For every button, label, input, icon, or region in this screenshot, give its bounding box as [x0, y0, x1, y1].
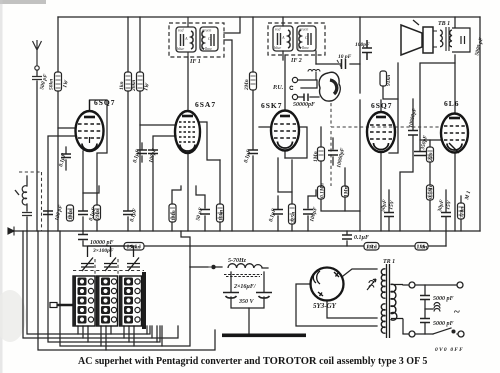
svg-text:20kn: 20kn — [131, 80, 137, 92]
svg-text:350 V: 350 V — [238, 299, 255, 305]
svg-text:A: A — [281, 35, 285, 40]
svg-text:2Mn: 2Mn — [244, 79, 250, 91]
svg-text:50000pF: 50000pF — [293, 102, 315, 108]
svg-text:6SK7: 6SK7 — [261, 101, 283, 110]
svg-text:6SQ7: 6SQ7 — [94, 98, 116, 107]
svg-text:1Mn: 1Mn — [313, 151, 319, 162]
svg-text:10000 pF: 10000 pF — [90, 240, 114, 246]
svg-text:C: C — [208, 36, 211, 41]
svg-text:5Y3-GY: 5Y3-GY — [313, 302, 337, 310]
svg-text:IF 2: IF 2 — [290, 58, 302, 64]
svg-text:100pF: 100pF — [355, 42, 370, 48]
svg-text:yellow: yellow — [297, 45, 309, 50]
svg-text:red: red — [275, 27, 281, 32]
svg-text:6SA7: 6SA7 — [195, 100, 216, 109]
svg-text:5000 pF: 5000 pF — [433, 321, 454, 327]
svg-text:A: A — [184, 36, 188, 41]
svg-text:3×100pF: 3×100pF — [92, 248, 114, 254]
svg-text:0.1µF: 0.1µF — [354, 235, 369, 241]
svg-text:6SQ7: 6SQ7 — [371, 101, 393, 110]
svg-text:150kn: 150kn — [127, 245, 141, 251]
svg-text:10kn: 10kn — [219, 210, 225, 221]
svg-text:IF 1: IF 1 — [189, 59, 201, 65]
svg-text:green: green — [299, 27, 308, 32]
svg-text:225n: 225n — [291, 212, 297, 224]
svg-text:yellow: yellow — [200, 46, 212, 51]
svg-text:6L6: 6L6 — [444, 99, 460, 108]
svg-text:green: green — [202, 28, 211, 33]
svg-text:1Mn: 1Mn — [344, 186, 350, 197]
svg-text:1kn: 1kn — [119, 81, 125, 90]
svg-text:5-70Hz: 5-70Hz — [228, 258, 247, 264]
svg-text:C: C — [305, 35, 308, 40]
svg-text:red: red — [178, 28, 184, 33]
svg-text:770n: 770n — [460, 207, 466, 218]
svg-text:TR 1: TR 1 — [383, 259, 395, 265]
svg-text:1Mn: 1Mn — [68, 209, 74, 220]
svg-text:P.U.: P.U. — [273, 85, 284, 91]
svg-text:10 pF: 10 pF — [338, 54, 352, 60]
svg-text:1Mn: 1Mn — [171, 210, 177, 221]
svg-text:1Mn: 1Mn — [366, 245, 377, 251]
svg-text:0.1Mn: 0.1Mn — [320, 183, 326, 198]
svg-text:91kn: 91kn — [386, 75, 392, 86]
svg-text:22n: 22n — [428, 152, 434, 162]
svg-text:50kn: 50kn — [49, 79, 55, 90]
svg-text:AC superhet with Pentagrid con: AC superhet with Pentagrid converter and… — [78, 356, 427, 367]
svg-text:~: ~ — [454, 306, 460, 318]
svg-text:blue: blue — [274, 45, 281, 50]
svg-text:5000 pF: 5000 pF — [433, 296, 454, 302]
svg-text:2Mn: 2Mn — [95, 209, 101, 221]
svg-text:2×16µF/: 2×16µF/ — [233, 284, 257, 290]
svg-text:TB 1: TB 1 — [438, 21, 450, 27]
svg-text:blue: blue — [177, 46, 184, 51]
svg-text:0.5Mn: 0.5Mn — [428, 184, 434, 199]
svg-text:1Mn: 1Mn — [417, 245, 428, 251]
svg-text:0V0 0FF: 0V0 0FF — [435, 347, 464, 353]
